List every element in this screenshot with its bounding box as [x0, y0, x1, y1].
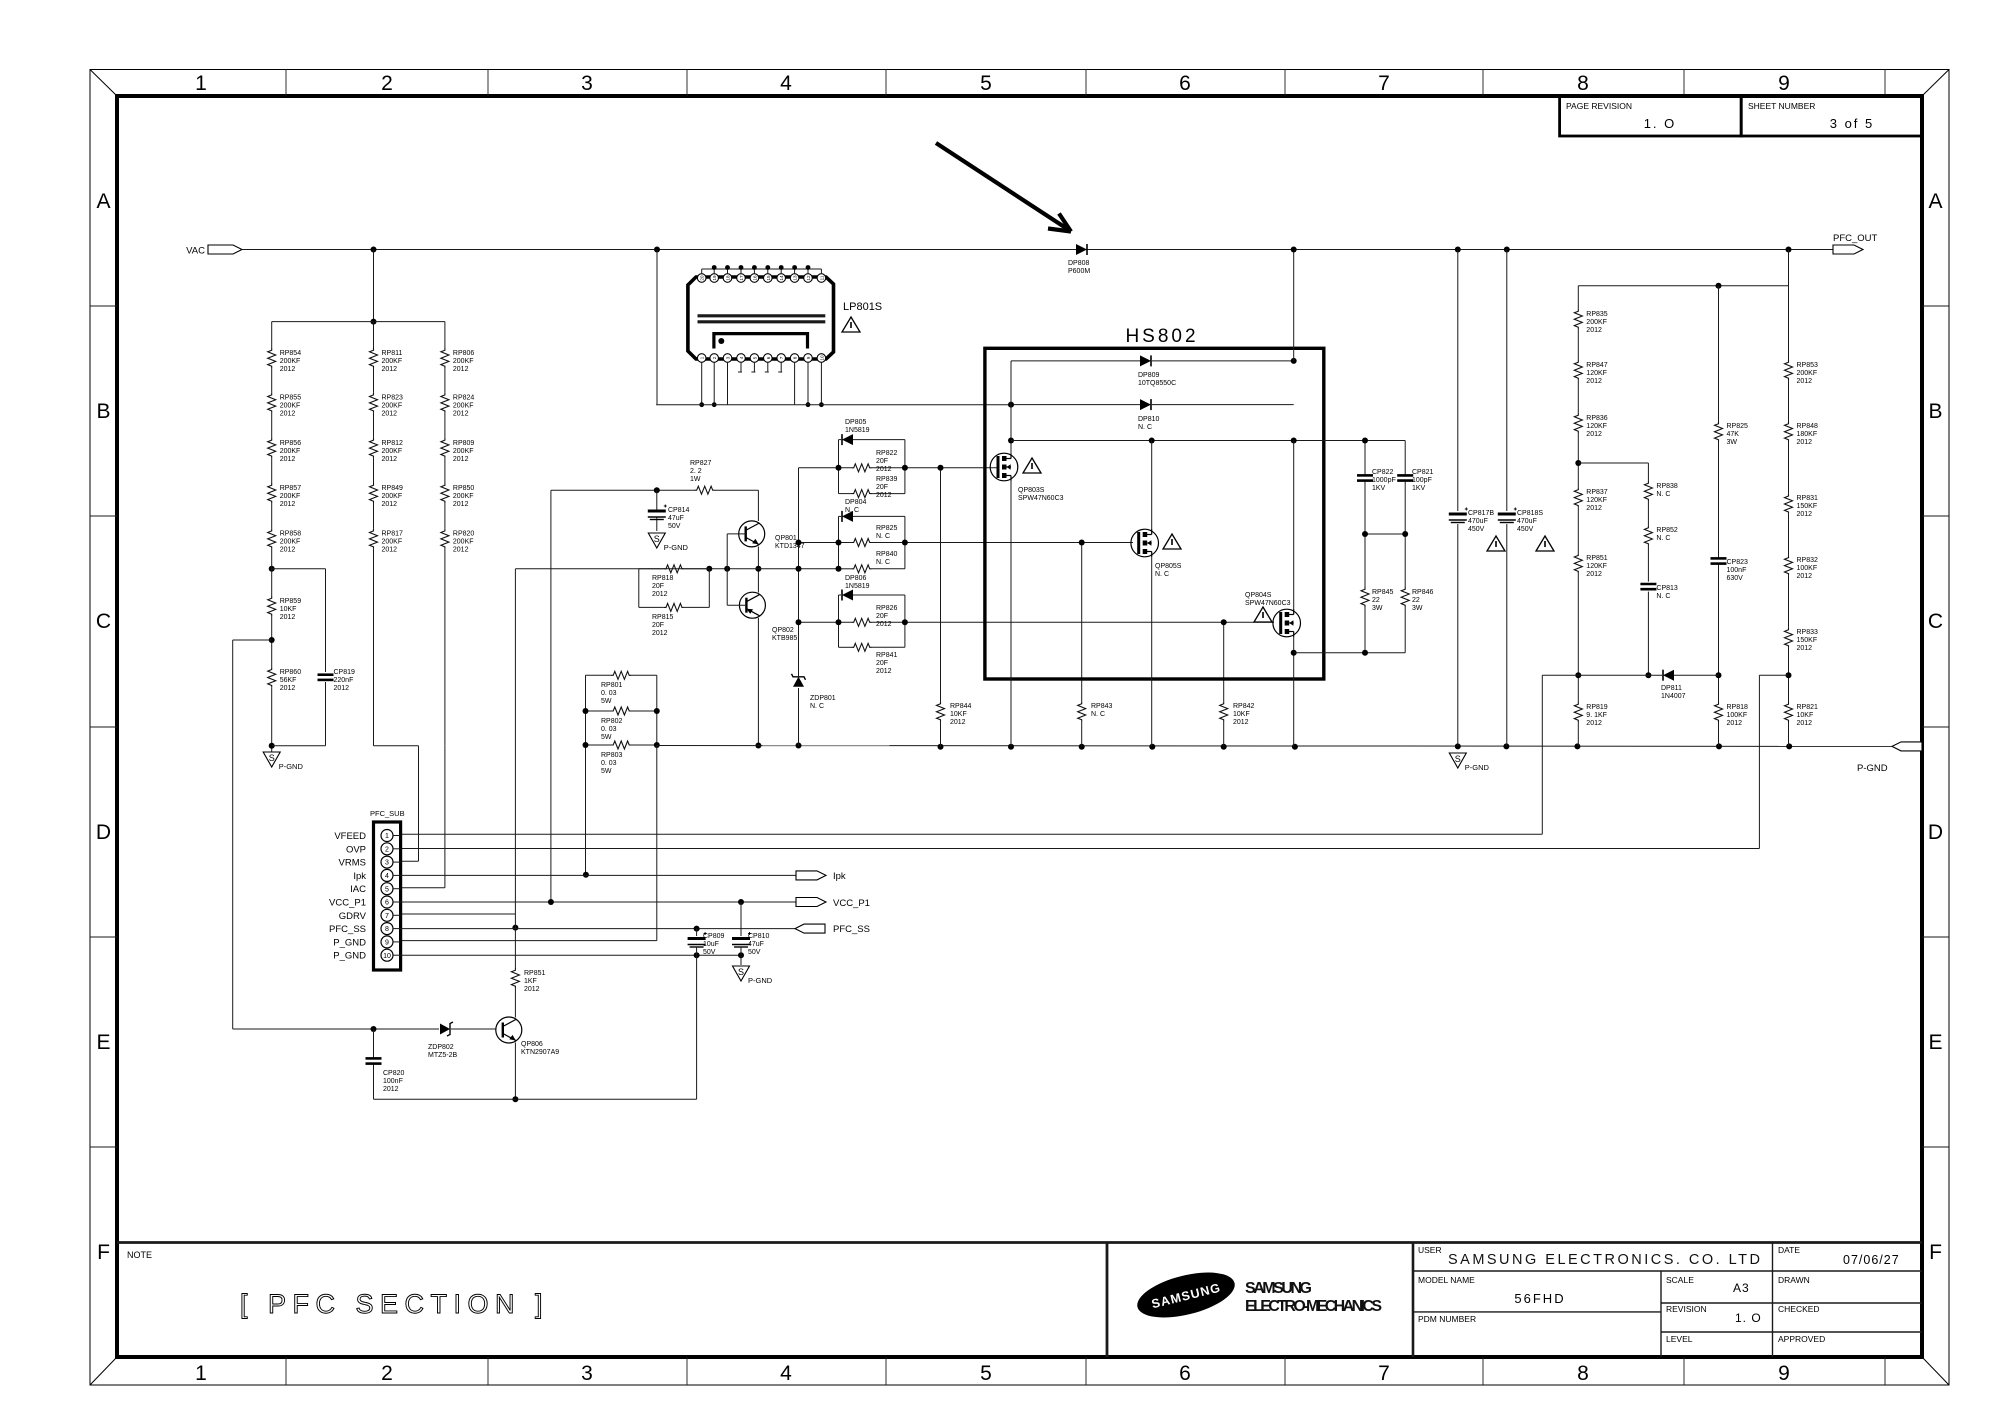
svg-text:5W: 5W [601, 698, 612, 705]
svg-text:2012: 2012 [1797, 573, 1813, 580]
svg-text:2012: 2012 [1586, 378, 1602, 385]
svg-text:22: 22 [1372, 597, 1380, 604]
svg-text:RP860: RP860 [280, 669, 302, 676]
junction group2 left [836, 540, 842, 546]
svg-text:2: 2 [381, 72, 393, 95]
wire resistor column 3 [444, 322, 446, 746]
svg-text:3W: 3W [1372, 605, 1383, 612]
junction CP818S top [1504, 247, 1510, 253]
svg-text:MODEL NAME: MODEL NAME [1418, 1275, 1475, 1285]
svg-text:200KF: 200KF [382, 493, 403, 500]
wire col3 to IAC riser [401, 746, 445, 888]
capacitor CP817B [1449, 508, 1505, 552]
svg-text:9: 9 [385, 940, 389, 947]
wire resistor column 2 [373, 322, 375, 746]
label DP804 [845, 499, 867, 514]
svg-text:QP801: QP801 [775, 535, 797, 542]
junction PFC_SS CP809 [694, 926, 700, 932]
junction col1 bottom [269, 743, 275, 749]
svg-text:1N5819: 1N5819 [845, 583, 870, 590]
title user cell [1418, 1245, 1760, 1268]
junction CP814 [654, 487, 660, 493]
ground P-GND CP814 [648, 533, 688, 552]
svg-text:P-GND: P-GND [1465, 763, 1490, 772]
wire CP818S rail [1506, 250, 1508, 747]
resistor RP826 [852, 605, 898, 628]
resistor RP812 [370, 438, 404, 463]
svg-text:A: A [96, 190, 110, 213]
svg-text:QP805S: QP805S [1155, 563, 1182, 570]
svg-text:APPROVED: APPROVED [1778, 1334, 1825, 1344]
wire pin9 riser [401, 745, 657, 941]
svg-text:1KV: 1KV [1412, 485, 1426, 492]
svg-text:4: 4 [780, 1362, 792, 1385]
svg-text:2012: 2012 [453, 411, 469, 418]
junction rail QP804S [1292, 744, 1298, 750]
svg-text:DP805: DP805 [845, 419, 867, 426]
junction emitters mid [755, 566, 761, 572]
resistor RP856 [268, 438, 302, 463]
svg-text:180KF: 180KF [1797, 431, 1818, 438]
svg-text:470uF: 470uF [1468, 518, 1488, 525]
svg-text:2012: 2012 [876, 621, 892, 628]
resistor RP842 [1220, 702, 1255, 726]
zone column dividers [286, 70, 1885, 1386]
svg-text:2012: 2012 [280, 614, 296, 621]
svg-text:2: 2 [712, 356, 717, 359]
svg-text:RP806: RP806 [453, 350, 475, 357]
svg-text:16: 16 [752, 275, 757, 281]
wire RP859-RP860 [271, 616, 273, 667]
junction drain rail right [1291, 438, 1297, 444]
junction shunt R1 [654, 708, 660, 714]
connector PFC_SUB box [370, 809, 405, 970]
resistor RP835 [1574, 309, 1608, 334]
diode DP809 [1138, 355, 1176, 387]
title level cell [1666, 1334, 1693, 1344]
svg-text:VFEED: VFEED [334, 831, 366, 842]
resistor RP838 [1644, 481, 1678, 501]
junction VAC-LP801S [654, 247, 660, 253]
svg-text:470uF: 470uF [1517, 518, 1537, 525]
svg-text:ELECTRO-MECHANICS: ELECTRO-MECHANICS [1245, 1298, 1382, 1315]
svg-text:RP822: RP822 [876, 450, 898, 457]
junction DP809 right [1291, 358, 1297, 364]
title pdm cell [1418, 1314, 1476, 1324]
svg-text:DATE: DATE [1778, 1245, 1800, 1255]
svg-text:RP839: RP839 [876, 476, 898, 483]
svg-text:100pF: 100pF [1412, 477, 1432, 484]
resistor RP815 [652, 603, 684, 637]
svg-text:RP835: RP835 [1586, 311, 1608, 318]
svg-text:RP832: RP832 [1797, 557, 1819, 564]
svg-text:200KF: 200KF [280, 403, 301, 410]
wire RP844 riser [940, 468, 942, 747]
svg-text:2012: 2012 [1586, 327, 1602, 334]
capacitor CP823 [1711, 558, 1749, 582]
wire snubber left rail [1364, 441, 1366, 653]
svg-text:2012: 2012 [280, 547, 296, 554]
junction zdp riser g3 [796, 619, 802, 625]
svg-text:17: 17 [739, 275, 744, 281]
svg-text:10TQ8550C: 10TQ8550C [1138, 380, 1176, 387]
wire col1 mid to left rail [233, 640, 272, 1029]
svg-text:CP810: CP810 [748, 933, 770, 940]
svg-text:A: A [1928, 190, 1942, 213]
connector PFC_SUB pin names [329, 831, 367, 962]
svg-text:7: 7 [1378, 1362, 1390, 1385]
junction bases [724, 566, 730, 572]
ground P-GND CP810 [733, 966, 773, 985]
resistor RP806 [441, 348, 475, 373]
mosfet QP804S [1245, 592, 1300, 637]
svg-text:50V: 50V [748, 949, 761, 956]
wire shunt block [586, 675, 657, 875]
svg-text:RP855: RP855 [280, 395, 302, 402]
svg-text:120KF: 120KF [1586, 423, 1607, 430]
junction rail RP843 [1079, 744, 1085, 750]
svg-text:CP820: CP820 [383, 1070, 405, 1077]
junction shunt L1 [583, 708, 589, 714]
resistor RP817 [370, 529, 404, 554]
svg-text:2012: 2012 [453, 456, 469, 463]
diode DP805 [842, 419, 870, 445]
wire bottom small rail [374, 1098, 697, 1100]
wire RP842 riser [1223, 622, 1225, 746]
junction QP802 emitter rail [755, 743, 761, 749]
svg-text:P600M: P600M [1068, 268, 1090, 275]
svg-text:1N4007: 1N4007 [1661, 693, 1686, 700]
wire group2 rails [839, 516, 905, 568]
svg-text:1. O: 1. O [1644, 116, 1677, 131]
svg-text:47uF: 47uF [668, 515, 684, 522]
junction group1 right [902, 465, 908, 471]
svg-text:N. C: N. C [876, 533, 890, 540]
wire VFEED run [401, 675, 1543, 834]
svg-text:2012: 2012 [382, 411, 398, 418]
junction group1 left [836, 465, 842, 471]
svg-text:RP850: RP850 [453, 485, 475, 492]
svg-text:RP840: RP840 [876, 551, 898, 558]
svg-text:3: 3 [385, 860, 389, 867]
svg-text:10: 10 [383, 953, 391, 960]
svg-text:200KF: 200KF [453, 358, 474, 365]
svg-text:LEVEL: LEVEL [1666, 1334, 1693, 1344]
svg-text:200KF: 200KF [1586, 319, 1607, 326]
wire QP802 emitter down [757, 618, 759, 746]
svg-text:2012: 2012 [1586, 431, 1602, 438]
svg-text:2012: 2012 [1586, 720, 1602, 727]
svg-text:QP802: QP802 [772, 627, 794, 634]
svg-text:8: 8 [1577, 72, 1589, 95]
zener ZDP802 [428, 1022, 458, 1059]
junction rail RP842 [1221, 744, 1227, 750]
svg-text:630V: 630V [1727, 575, 1744, 582]
svg-text:20F: 20F [876, 660, 888, 667]
svg-text:2012: 2012 [453, 501, 469, 508]
svg-text:N. C: N. C [1656, 491, 1670, 498]
resistor RP848 [1785, 422, 1819, 447]
svg-text:56FHD: 56FHD [1514, 1291, 1565, 1306]
diode DP807 [842, 511, 853, 522]
svg-text:6: 6 [1179, 72, 1191, 95]
svg-text:SHEET NUMBER: SHEET NUMBER [1748, 101, 1815, 111]
svg-text:DP810: DP810 [1138, 416, 1160, 423]
svg-text:RP823: RP823 [382, 395, 404, 402]
svg-text:20: 20 [700, 275, 705, 281]
port P-GND [1857, 742, 1922, 774]
svg-text:10uF: 10uF [703, 941, 719, 948]
transistor QP802 [739, 592, 797, 642]
svg-text:220nF: 220nF [334, 677, 354, 684]
svg-text:120KF: 120KF [1586, 370, 1607, 377]
svg-text:2012: 2012 [876, 466, 892, 473]
junction snubber mid R [1402, 531, 1408, 537]
wire LP801S pin stubs [699, 362, 824, 407]
connector PFC_SUB pins [381, 830, 401, 962]
diode DP811 [1661, 670, 1686, 700]
junction zdp riser g2 [796, 540, 802, 546]
svg-text:E: E [1928, 1031, 1942, 1054]
svg-text:150KF: 150KF [1797, 503, 1818, 510]
svg-text:2012: 2012 [382, 547, 398, 554]
svg-text:18: 18 [726, 275, 731, 281]
svg-text:N. C: N. C [1656, 593, 1670, 600]
junction ladder top [1786, 247, 1792, 253]
svg-text:450V: 450V [1517, 526, 1534, 533]
resistor RP853 [1785, 360, 1819, 385]
resistor RP846 [1401, 587, 1433, 612]
svg-text:12: 12 [806, 275, 811, 281]
svg-text:CHECKED: CHECKED [1778, 1304, 1820, 1314]
svg-text:5: 5 [980, 72, 992, 95]
svg-text:OVP: OVP [346, 844, 366, 855]
resistor RP802 [601, 707, 631, 741]
port VAC [186, 245, 242, 257]
label LP801S [842, 301, 882, 332]
resistor RP820 [441, 529, 475, 554]
svg-text:50V: 50V [703, 949, 716, 956]
title drawn cell [1778, 1275, 1810, 1285]
junction rail QP803S [1008, 744, 1014, 750]
resistor RP819 [1574, 702, 1608, 727]
svg-text:RP854: RP854 [280, 350, 302, 357]
svg-text:N. C: N. C [1656, 535, 1670, 542]
wire snubber mid [1365, 533, 1405, 535]
junction PFC_OUT riser top [1291, 247, 1297, 253]
svg-text:RP820: RP820 [453, 531, 475, 538]
svg-text:4: 4 [385, 873, 389, 880]
svg-text:50V: 50V [668, 523, 681, 530]
resistor RP847 [1574, 360, 1608, 385]
junction drain rail mid [1149, 438, 1155, 444]
svg-text:DP806: DP806 [845, 575, 867, 582]
title block grid [1413, 1243, 1922, 1358]
svg-text:2012: 2012 [1797, 439, 1813, 446]
junction PFC_SS riser [512, 925, 518, 931]
resistor RP827 [690, 460, 715, 494]
capacitor CP813 [1640, 584, 1678, 600]
wire col1 to RP859 [271, 558, 273, 596]
port VCC_P1 [796, 898, 870, 910]
svg-text:A3: A3 [1733, 1281, 1750, 1295]
junction CP817B top [1455, 247, 1461, 253]
wire RP827 rail [551, 489, 759, 491]
resistor RP823 [370, 393, 404, 418]
svg-text:RP843: RP843 [1091, 703, 1113, 710]
junction QP806 rail [512, 1096, 518, 1102]
resistor RP840 [839, 551, 905, 573]
svg-text:47K: 47K [1727, 431, 1740, 438]
svg-text:RP817: RP817 [382, 531, 404, 538]
wire group1 mid row [799, 467, 998, 469]
svg-text:ZDP801: ZDP801 [810, 695, 836, 702]
svg-text:10KF: 10KF [1233, 711, 1250, 718]
svg-text:2012: 2012 [382, 366, 398, 373]
wire snubber right rail [1404, 441, 1406, 653]
svg-text:120KF: 120KF [1586, 563, 1607, 570]
svg-text:P_GND: P_GND [333, 951, 366, 962]
svg-text:20F: 20F [876, 458, 888, 465]
svg-text:F: F [1929, 1241, 1942, 1264]
svg-text:1. O: 1. O [1735, 1311, 1762, 1325]
resistor RP854 [268, 348, 302, 373]
svg-text:VCC_P1: VCC_P1 [329, 898, 366, 909]
wire RP851 to QP806 [514, 988, 516, 1018]
svg-text:P-GND: P-GND [279, 762, 304, 771]
svg-text:CP817B: CP817B [1468, 510, 1494, 517]
svg-text:2012: 2012 [1727, 720, 1743, 727]
resistor RP811 [370, 348, 403, 373]
svg-text:RP856: RP856 [280, 440, 302, 447]
svg-text:0. 03: 0. 03 [601, 690, 617, 697]
svg-text:200KF: 200KF [453, 539, 474, 546]
wire QP801 collector [757, 490, 759, 521]
zone row letters [96, 190, 1943, 1264]
svg-text:PFC_OUT: PFC_OUT [1833, 233, 1878, 244]
wire feedback mid [1542, 674, 1788, 676]
junction snubber bot [1362, 650, 1368, 656]
capacitor CP820 [366, 1058, 405, 1093]
svg-text:200KF: 200KF [382, 358, 403, 365]
svg-text:7: 7 [1378, 72, 1390, 95]
svg-text:RP852: RP852 [1656, 527, 1678, 534]
junction group3 left [836, 619, 842, 625]
wire DP810 row [1011, 404, 1294, 406]
svg-text:CP813: CP813 [1656, 585, 1678, 592]
svg-text:10KF: 10KF [950, 711, 967, 718]
svg-text:200KF: 200KF [280, 493, 301, 500]
svg-text:DP808: DP808 [1068, 260, 1090, 267]
junction rail CP817B [1455, 743, 1461, 749]
resistor RP855 [268, 393, 302, 418]
svg-text:C: C [96, 610, 111, 633]
wire RP843 riser [1081, 543, 1083, 747]
svg-text:5W: 5W [601, 734, 612, 741]
svg-text:100nF: 100nF [1727, 567, 1747, 574]
junction shunt Ipk [583, 872, 589, 878]
svg-text:3: 3 [581, 1362, 593, 1385]
junction rail L4 [1786, 743, 1792, 749]
junction pin10 CP809 [694, 952, 700, 958]
wire CP814 [656, 490, 658, 531]
svg-text:56KF: 56KF [280, 677, 297, 684]
svg-text:RP803: RP803 [601, 752, 623, 759]
svg-text:E: E [96, 1031, 110, 1054]
svg-text:RP845: RP845 [1372, 589, 1394, 596]
svg-text:F: F [97, 1241, 110, 1264]
junction ladder2 fb [1645, 672, 1651, 678]
junction rail L1 [1574, 743, 1580, 749]
ground P-GND rail [1449, 753, 1489, 772]
junction VCC CP810 [738, 899, 744, 905]
annotation arrow [936, 143, 1071, 232]
svg-text:CP809: CP809 [703, 933, 725, 940]
wire drain rail [1011, 440, 1405, 442]
svg-text:0. 03: 0. 03 [601, 726, 617, 733]
svg-text:2012: 2012 [280, 456, 296, 463]
svg-text:4: 4 [780, 72, 792, 95]
svg-text:11: 11 [819, 275, 824, 280]
junction RP842 top [1221, 619, 1227, 625]
svg-text:150KF: 150KF [1797, 637, 1818, 644]
wire VAC main top [242, 249, 1833, 251]
svg-text:N. C: N. C [1091, 711, 1105, 718]
title revision cell [1666, 1304, 1762, 1325]
capacitor CP822 [1357, 469, 1396, 492]
wire PFC_OUT riser [1293, 250, 1295, 361]
svg-text:RP836: RP836 [1586, 415, 1608, 422]
resistor RP836 [1574, 413, 1608, 438]
resistor RP837 [1574, 487, 1608, 512]
svg-text:200KF: 200KF [382, 539, 403, 546]
note box [117, 1243, 1922, 1358]
wire group3 rails [839, 595, 905, 647]
wire PFC_SS [401, 928, 795, 930]
svg-text:200KF: 200KF [382, 448, 403, 455]
wire QP806 emitter [514, 1043, 516, 1100]
diode DP810 [1138, 399, 1160, 431]
svg-text:2012: 2012 [1797, 511, 1813, 518]
svg-text:RP825: RP825 [1727, 423, 1749, 430]
svg-text:S: S [654, 534, 660, 544]
svg-text:9: 9 [806, 356, 811, 359]
resistor RP851 [511, 968, 545, 993]
svg-text:200KF: 200KF [280, 448, 301, 455]
svg-text:RP819: RP819 [1586, 704, 1608, 711]
svg-text:P_GND: P_GND [333, 937, 366, 948]
svg-text:RP821: RP821 [1797, 704, 1819, 711]
junction CP820 top [371, 1026, 377, 1032]
svg-text:5: 5 [752, 356, 757, 359]
wire LP801S bottom rail [656, 404, 1011, 406]
wire ladder4 top drop [1788, 250, 1790, 286]
svg-text:RP811: RP811 [382, 350, 403, 357]
wire ZDP801 riser [798, 468, 800, 746]
svg-text:20F: 20F [876, 613, 888, 620]
wire ladder4 [1788, 286, 1790, 747]
wire P_GND pin10 [401, 954, 741, 956]
svg-text:5: 5 [980, 1362, 992, 1385]
capacitor CP821 [1397, 469, 1433, 492]
svg-text:2012: 2012 [1586, 571, 1602, 578]
svg-text:RP831: RP831 [1797, 495, 1819, 502]
svg-text:07/06/27: 07/06/27 [1843, 1253, 1900, 1267]
svg-text:2012: 2012 [524, 986, 540, 993]
svg-text:VCC_P1: VCC_P1 [833, 898, 870, 909]
junction rail QP805S [1149, 744, 1155, 750]
svg-text:22: 22 [1412, 597, 1420, 604]
